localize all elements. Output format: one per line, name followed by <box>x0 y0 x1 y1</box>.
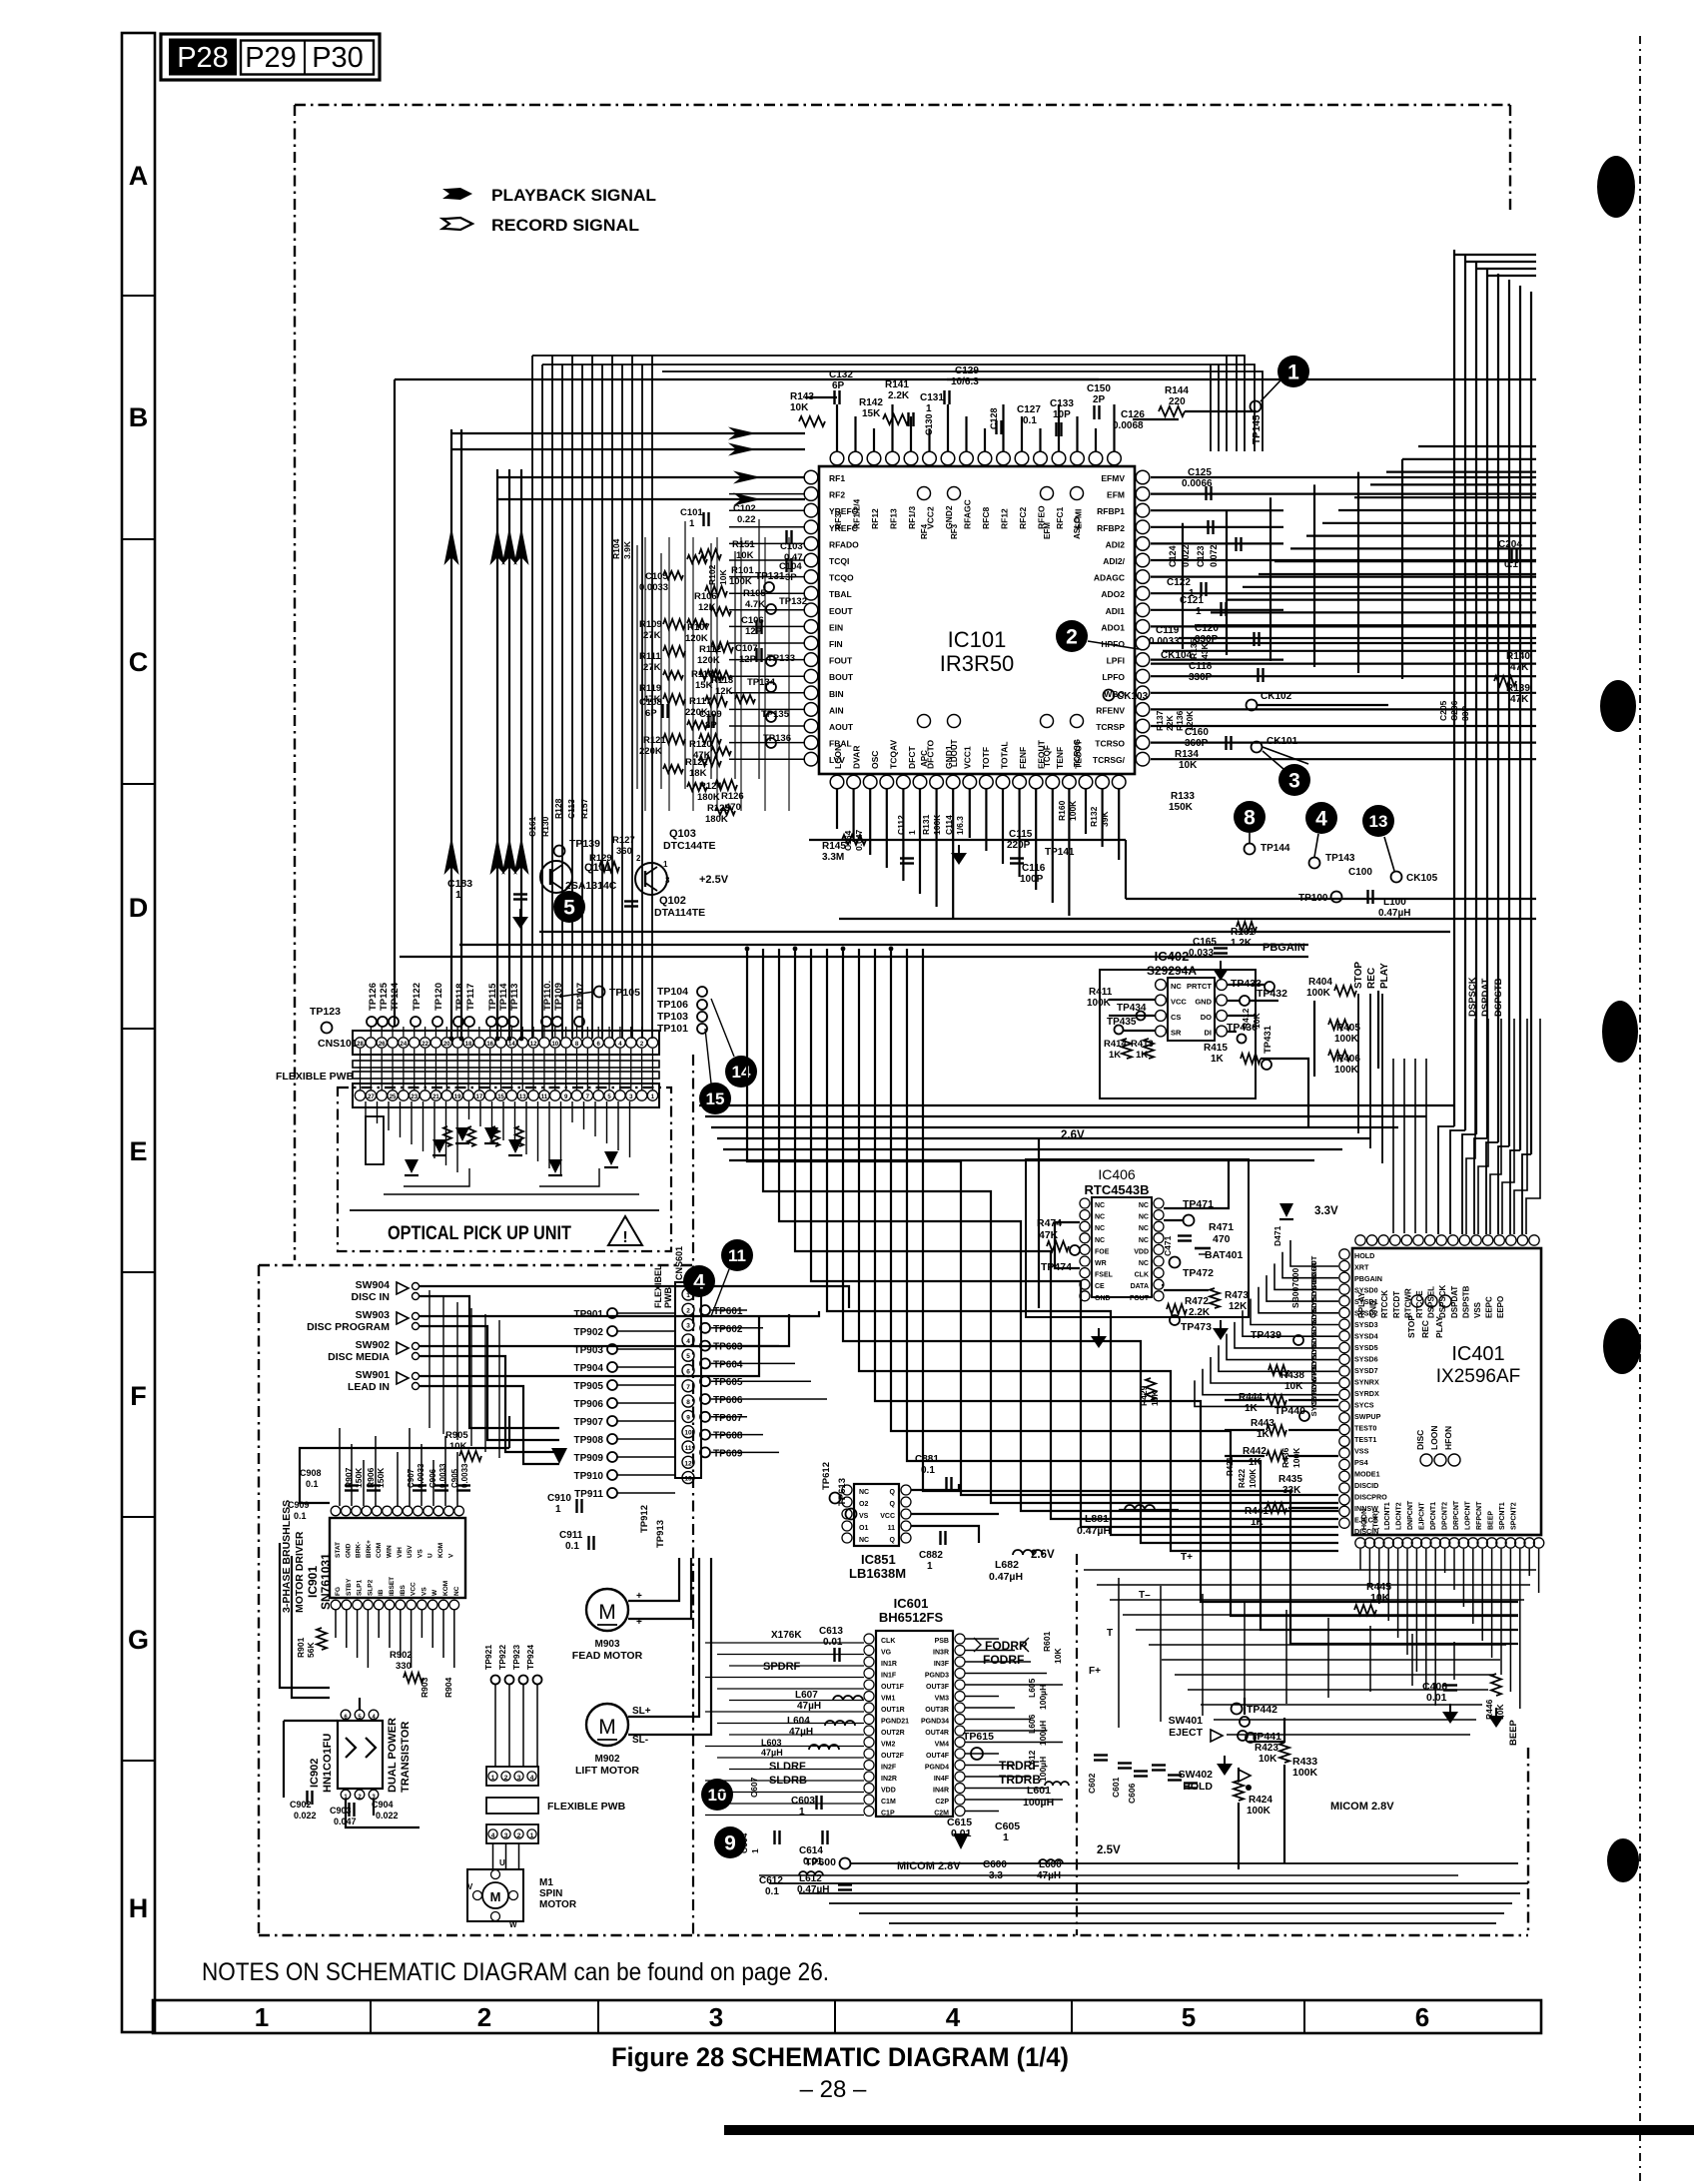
svg-text:NC: NC <box>859 1537 869 1544</box>
registration mark blob 4 <box>1603 1318 1641 1374</box>
IC851 wires right <box>911 1484 959 1490</box>
svg-text:18K: 18K <box>689 768 707 779</box>
svg-text:TP608: TP608 <box>713 1431 743 1442</box>
svg-text:IN2F: IN2F <box>881 1765 897 1772</box>
svg-text:0.1: 0.1 <box>1504 559 1518 570</box>
svg-text:OUT2R: OUT2R <box>881 1730 905 1737</box>
svg-text:VDD: VDD <box>881 1788 896 1795</box>
callout 13 <box>1362 805 1394 837</box>
svg-text:GND: GND <box>345 1543 352 1558</box>
svg-text:27K: 27K <box>643 662 661 673</box>
svg-text:TP911: TP911 <box>574 1489 603 1500</box>
svg-text:EFMV: EFMV <box>1101 473 1125 483</box>
callout 14 <box>725 1056 757 1088</box>
svg-text:R128: R128 <box>553 798 563 819</box>
svg-text:13: 13 <box>519 1094 526 1100</box>
svg-text:DSPSCK: DSPSCK <box>1467 977 1478 1017</box>
svg-text:C124: C124 <box>1168 545 1178 567</box>
svg-text:1: 1 <box>530 1832 534 1839</box>
svg-text:C903: C903 <box>330 1806 352 1816</box>
svg-text:1.2K: 1.2K <box>1231 938 1253 949</box>
svg-text:12P: 12P <box>745 626 763 637</box>
svg-text:DISC PROGRAM: DISC PROGRAM <box>307 1321 390 1333</box>
svg-text:6P: 6P <box>832 380 845 391</box>
svg-text:SYSD7: SYSD7 <box>1354 1366 1378 1375</box>
IC101 inner pads <box>918 487 931 500</box>
svg-text:VS: VS <box>417 1549 423 1558</box>
svg-text:150K: 150K <box>1169 802 1194 813</box>
svg-text:TP431: TP431 <box>1263 1025 1273 1054</box>
svg-text:DISCID: DISCID <box>1354 1481 1378 1490</box>
registration mark blob 3 <box>1602 1001 1638 1063</box>
svg-text:H: H <box>129 1893 149 1923</box>
IC902 inner transistor marks <box>346 1738 356 1758</box>
transistor Q101 2SA1314C <box>540 861 572 893</box>
svg-text:GND: GND <box>1095 1295 1111 1302</box>
svg-text:C161: C161 <box>527 816 537 837</box>
svg-text:EFM: EFM <box>1043 522 1052 539</box>
svg-text:C122: C122 <box>1167 577 1191 588</box>
svg-text:SLDRF: SLDRF <box>769 1761 806 1773</box>
svg-text:TP922: TP922 <box>497 1645 507 1670</box>
svg-text:DISC: DISC <box>1415 1430 1425 1450</box>
svg-text:STAT: STAT <box>335 1542 342 1558</box>
svg-text:TP609: TP609 <box>713 1448 743 1459</box>
svg-text:C150: C150 <box>1087 383 1111 394</box>
svg-text:TP124: TP124 <box>390 982 401 1011</box>
svg-text:PLAY: PLAY <box>1434 1316 1444 1338</box>
svg-text:S29294A: S29294A <box>1147 964 1197 978</box>
svg-text:TP901: TP901 <box>574 1309 604 1320</box>
2.6V bus into region <box>1038 1139 1040 1308</box>
svg-text:BH6512FS: BH6512FS <box>879 1610 944 1625</box>
svg-text:CK105: CK105 <box>1406 873 1438 884</box>
svg-text:TP606: TP606 <box>713 1395 743 1406</box>
svg-text:DUAL POWER: DUAL POWER <box>387 1718 399 1793</box>
svg-text:R131: R131 <box>921 814 931 835</box>
svg-text:TP120: TP120 <box>433 983 444 1011</box>
svg-text:SYSD6: SYSD6 <box>1354 1355 1378 1364</box>
svg-text:DSPSEL: DSPSEL <box>1427 1286 1436 1318</box>
svg-text:100K: 100K <box>932 814 942 835</box>
svg-text:RFC2: RFC2 <box>1018 507 1028 529</box>
svg-text:IC402: IC402 <box>1155 949 1190 964</box>
svg-text:M903: M903 <box>594 1639 619 1650</box>
svg-text:FLEXIBLE PWB: FLEXIBLE PWB <box>547 1801 626 1813</box>
svg-text:VDD: VDD <box>1134 1248 1149 1255</box>
svg-text:TP607: TP607 <box>713 1413 743 1424</box>
wire leads to callouts 14 15 <box>711 999 734 1057</box>
callout 4 lower <box>683 1265 715 1297</box>
svg-text:ADI2/: ADI2/ <box>1103 556 1125 566</box>
svg-text:RFADO: RFADO <box>829 539 859 549</box>
svg-text:DRPCNT: DRPCNT <box>1453 1500 1460 1530</box>
wires TP601 row to staircase <box>711 1309 747 1311</box>
svg-text:DISC MEDIA: DISC MEDIA <box>328 1351 390 1363</box>
right stub wires from IC101 right pins <box>1151 476 1536 478</box>
callout 4 mid <box>1305 802 1337 834</box>
left forest stub wires <box>729 476 805 478</box>
svg-text:22: 22 <box>422 1042 428 1048</box>
resistor R143 <box>799 416 825 426</box>
svg-text:C116: C116 <box>1022 863 1046 874</box>
svg-text:TP612: TP612 <box>821 1462 832 1490</box>
TP105 <box>594 987 605 998</box>
svg-text:R151: R151 <box>732 539 755 550</box>
svg-text:10K: 10K <box>1179 760 1198 771</box>
svg-text:TCQO: TCQO <box>829 573 854 583</box>
svg-text:L612: L612 <box>1027 1750 1037 1770</box>
svg-text:L604: L604 <box>787 1716 810 1727</box>
warning triangle <box>608 1216 642 1245</box>
svg-text:APC: APC <box>920 750 929 767</box>
svg-text:4: 4 <box>686 1338 690 1345</box>
left forest caps <box>702 512 704 526</box>
svg-text:TP605: TP605 <box>713 1377 743 1388</box>
svg-text:R141: R141 <box>885 379 909 390</box>
svg-text:NC: NC <box>1139 1260 1149 1267</box>
IC401 left pin column <box>1339 1249 1349 1259</box>
svg-text:L601: L601 <box>1027 1785 1051 1797</box>
svg-text:C101: C101 <box>680 507 703 518</box>
svg-text:1: 1 <box>926 403 932 414</box>
svg-text:1: 1 <box>799 1807 805 1818</box>
svg-text:13: 13 <box>684 1476 692 1483</box>
svg-text:PLAY: PLAY <box>1379 963 1390 989</box>
svg-text:12: 12 <box>530 1042 537 1048</box>
IC406 RTC4543B region box <box>1026 1159 1249 1317</box>
svg-text:TP910: TP910 <box>574 1471 604 1482</box>
svg-text:10: 10 <box>708 1786 727 1805</box>
svg-text:KOM: KOM <box>442 1581 449 1596</box>
svg-text:C909: C909 <box>288 1500 310 1510</box>
wire callout11 lead <box>711 1269 729 1316</box>
svg-text:M: M <box>598 1601 616 1624</box>
svg-text:1K: 1K <box>1109 1050 1121 1061</box>
resistor R144 <box>1159 406 1185 416</box>
wire left tall vertical TP123 feed <box>394 379 396 1027</box>
IC401 bottom mesh verticals <box>1118 1578 1120 1728</box>
svg-text:C165: C165 <box>1193 937 1217 948</box>
svg-text:TP105: TP105 <box>609 987 640 999</box>
svg-text:HOLD: HOLD <box>1183 1781 1213 1793</box>
svg-text:26: 26 <box>379 1042 386 1048</box>
svg-text:2.5V: 2.5V <box>1097 1844 1121 1856</box>
svg-text:2: 2 <box>636 854 641 863</box>
svg-text:47K: 47K <box>643 694 661 705</box>
svg-text:SYSD2: SYSD2 <box>1354 1309 1378 1318</box>
svg-text:SL+: SL+ <box>632 1706 651 1717</box>
svg-text:OUT3F: OUT3F <box>926 1684 950 1691</box>
svg-text:!: ! <box>622 1229 627 1246</box>
TP601-TP609 test points <box>700 1305 710 1315</box>
svg-text:EJECT: EJECT <box>1169 1727 1203 1739</box>
wire callout4 <box>1314 834 1318 857</box>
svg-text:IN4F: IN4F <box>934 1776 950 1783</box>
capacitor C100 <box>1366 890 1368 904</box>
wire callout13 <box>1384 837 1394 871</box>
svg-text:10K: 10K <box>1284 1381 1303 1392</box>
svg-text:PGND34: PGND34 <box>921 1719 949 1726</box>
svg-text:R106: R106 <box>694 591 717 602</box>
svg-text:W: W <box>431 1589 438 1596</box>
svg-text:3: 3 <box>665 876 670 885</box>
wire bundle top-left verticals to top bus <box>531 356 533 1039</box>
svg-text:100K: 100K <box>1068 800 1078 821</box>
svg-text:12K: 12K <box>715 686 733 697</box>
svg-text:100K: 100K <box>1334 1034 1359 1045</box>
caps near dash divider <box>1152 1764 1166 1766</box>
svg-text:VIH: VIH <box>397 1547 404 1558</box>
svg-text:5: 5 <box>686 1353 690 1360</box>
svg-text:L607: L607 <box>795 1690 818 1701</box>
svg-text:OUT4F: OUT4F <box>926 1753 950 1760</box>
svg-text:TP432: TP432 <box>1257 988 1287 1000</box>
svg-text:DATA: DATA <box>1131 1283 1149 1290</box>
svg-text:F+: F+ <box>1089 1666 1101 1677</box>
svg-text:R109: R109 <box>639 619 662 630</box>
svg-text:VS: VS <box>421 1587 427 1596</box>
svg-text:R423: R423 <box>1255 1743 1278 1754</box>
svg-text:TBAL: TBAL <box>829 589 852 599</box>
svg-text:SYSD4: SYSD4 <box>1354 1332 1378 1341</box>
svg-text:C606: C606 <box>1127 1783 1137 1804</box>
IC902 HN1CO1FU dual power transistor body <box>338 1721 383 1789</box>
switch output wires <box>420 1286 849 1308</box>
svg-text:R411: R411 <box>1089 987 1113 998</box>
svg-text:R142: R142 <box>859 397 883 408</box>
wire top bus line lower <box>542 364 1255 451</box>
svg-text:SYSD0: SYSD0 <box>1354 1286 1378 1295</box>
svg-text:NC: NC <box>859 1489 869 1496</box>
svg-text:11: 11 <box>685 1445 692 1452</box>
svg-text:TP923: TP923 <box>511 1645 521 1670</box>
svg-text:R136: R136 <box>1175 710 1185 731</box>
wire callout3 <box>1263 751 1283 769</box>
flexible PWB bars <box>353 1061 659 1068</box>
IC101 bottom stub wires <box>836 789 838 829</box>
svg-text:TP107: TP107 <box>575 983 586 1011</box>
svg-text:CNS601: CNS601 <box>674 1246 684 1280</box>
svg-text:0.1: 0.1 <box>1023 415 1037 426</box>
svg-text:REC: REC <box>1366 968 1377 989</box>
svg-text:TOTAL: TOTAL <box>1000 741 1010 769</box>
schematic border left <box>294 105 296 1260</box>
svg-text:NC: NC <box>1095 1202 1105 1209</box>
schematic border right-bottom stub <box>1527 1748 1529 1935</box>
svg-text:RF12: RF12 <box>870 508 880 529</box>
svg-text:X176K: X176K <box>771 1630 802 1641</box>
svg-text:3: 3 <box>517 1775 521 1782</box>
flexible PWB bar <box>486 1798 538 1814</box>
svg-text:T–: T– <box>1139 1590 1151 1601</box>
svg-text:180K: 180K <box>705 814 728 825</box>
svg-text:1: 1 <box>255 2002 269 2032</box>
right staircase corner verticals <box>1401 459 1403 679</box>
svg-text:WR: WR <box>1095 1260 1107 1267</box>
IC901 bottom pins <box>331 1600 341 1610</box>
svg-text:ADI2: ADI2 <box>1106 539 1126 549</box>
svg-text:R421: R421 <box>1226 1456 1235 1476</box>
svg-text:R157: R157 <box>579 798 589 819</box>
inductor L603 <box>809 1745 839 1750</box>
wire CK102 line <box>1258 704 1388 706</box>
svg-text:HN1CO1FU: HN1CO1FU <box>322 1734 334 1793</box>
svg-text:TP902: TP902 <box>574 1327 604 1338</box>
svg-text:BAT401: BAT401 <box>1205 1249 1243 1261</box>
left forest vertical links <box>636 545 638 789</box>
svg-text:R120: R120 <box>689 739 712 750</box>
svg-text:NC: NC <box>1139 1237 1149 1244</box>
svg-text:C164: C164 <box>843 830 853 851</box>
test points bottom <box>1245 844 1256 855</box>
section divider dash vertical right <box>1076 1554 1078 1935</box>
svg-text:22K: 22K <box>1165 715 1175 731</box>
svg-text:C612: C612 <box>759 1875 783 1886</box>
svg-text:TP908: TP908 <box>574 1435 604 1446</box>
svg-text:TP117: TP117 <box>465 984 476 1011</box>
svg-text:DFCT: DFCT <box>907 746 917 769</box>
svg-text:WIN: WIN <box>387 1545 394 1558</box>
svg-text:E: E <box>129 1136 147 1166</box>
svg-text:LOPCNT: LOPCNT <box>1465 1501 1472 1531</box>
svg-text:FOUT: FOUT <box>829 656 853 666</box>
IC601 wires left <box>705 1642 864 1644</box>
svg-text:FEAD MOTOR: FEAD MOTOR <box>572 1650 643 1662</box>
svg-text:IR3R50: IR3R50 <box>940 651 1015 676</box>
svg-text:1K: 1K <box>1251 1517 1265 1528</box>
svg-text:BIN: BIN <box>829 689 844 699</box>
svg-text:0.22: 0.22 <box>737 514 756 525</box>
svg-text:PRTCT: PRTCT <box>1187 982 1212 991</box>
svg-text:IN2R: IN2R <box>881 1776 897 1783</box>
schematic border bottom <box>259 1934 1528 1936</box>
svg-text:10K: 10K <box>1259 1754 1277 1765</box>
svg-text:PLAYBACK SIGNAL: PLAYBACK SIGNAL <box>491 186 656 205</box>
svg-text:C100: C100 <box>1348 867 1372 878</box>
svg-text:RTC4543B: RTC4543B <box>1084 1182 1149 1197</box>
svg-text:TP113: TP113 <box>509 984 520 1011</box>
svg-text:12K: 12K <box>1229 1301 1248 1312</box>
svg-text:220K: 220K <box>639 746 662 757</box>
svg-text:0.01: 0.01 <box>1426 1692 1447 1704</box>
IC401 stop rec play pad trio <box>1411 1295 1423 1307</box>
svg-text:R444: R444 <box>1239 1392 1263 1403</box>
wire callout2 <box>1088 641 1139 649</box>
svg-text:OSC: OSC <box>870 751 880 769</box>
staircase junction dots <box>745 947 750 952</box>
svg-text:TP903: TP903 <box>574 1345 604 1356</box>
svg-text:120K: 120K <box>1185 710 1195 731</box>
svg-text:C881: C881 <box>915 1454 939 1465</box>
inductor L604 <box>825 1721 855 1726</box>
svg-text:2: 2 <box>1066 626 1078 649</box>
test point CK103 <box>1104 690 1115 701</box>
svg-text:TP139: TP139 <box>569 838 600 850</box>
section divider dash vertical center <box>692 1055 694 1935</box>
svg-text:MOTOR: MOTOR <box>539 1899 577 1910</box>
svg-text:LIFT MOTOR: LIFT MOTOR <box>575 1765 639 1777</box>
svg-text:OUT4R: OUT4R <box>925 1730 949 1737</box>
svg-text:4: 4 <box>1315 808 1327 831</box>
svg-text:BOUT: BOUT <box>829 672 854 682</box>
svg-text:100K: 100K <box>1334 1065 1359 1076</box>
svg-text:VCC: VCC <box>880 1513 895 1520</box>
svg-text:0.1: 0.1 <box>306 1479 319 1489</box>
svg-text:4: 4 <box>491 1832 495 1839</box>
svg-text:1: 1 <box>1003 1831 1009 1843</box>
svg-text:15K: 15K <box>862 408 881 419</box>
svg-text:– 28 –: – 28 – <box>800 2076 867 2103</box>
svg-text:A: A <box>129 161 149 191</box>
right margin dash-dot page divider <box>1639 36 1641 2182</box>
svg-text:2: 2 <box>504 1775 508 1782</box>
svg-text:O2: O2 <box>859 1501 868 1508</box>
svg-text:(TOR): (TOR) <box>1373 1511 1380 1530</box>
svg-text:TP103: TP103 <box>657 1011 688 1023</box>
svg-text:27K: 27K <box>643 630 661 641</box>
svg-text:TENF: TENF <box>1055 747 1065 769</box>
svg-text:LDCNT1: LDCNT1 <box>1384 1502 1391 1530</box>
svg-text:25: 25 <box>390 1094 397 1100</box>
page tabs P28 P29 P30 <box>161 34 380 80</box>
IC401 left feed staircase <box>1290 1240 1338 1266</box>
svg-text:100K: 100K <box>729 576 752 587</box>
svg-text:LEAD IN: LEAD IN <box>348 1381 390 1393</box>
svg-text:47K: 47K <box>1510 694 1529 705</box>
svg-text:100P: 100P <box>1020 874 1044 885</box>
svg-text:1: 1 <box>1196 606 1202 617</box>
svg-text:24: 24 <box>401 1042 408 1048</box>
wire callout8 <box>1249 833 1251 844</box>
IC401 bottom pin row <box>1355 1538 1365 1548</box>
IC401 bottom serpentines <box>1084 1569 1536 1571</box>
bottom zone number strip <box>153 2000 1541 2033</box>
svg-text:C205: C205 <box>1438 700 1448 721</box>
registration mark blob 2 <box>1600 680 1636 732</box>
middle bus horizontals <box>699 1104 1454 1106</box>
svg-text:RFC8: RFC8 <box>981 507 991 529</box>
svg-text:SLP2: SLP2 <box>367 1579 374 1596</box>
inductor L882 coil <box>1013 1550 1043 1555</box>
svg-text:180K: 180K <box>697 792 720 803</box>
svg-text:6: 6 <box>1415 2002 1429 2032</box>
svg-text:XRT: XRT <box>1354 1263 1369 1272</box>
svg-text:STBY: STBY <box>346 1578 353 1596</box>
switch bundle verticals to IC901 <box>428 1290 430 1428</box>
svg-text:SLP1: SLP1 <box>357 1579 364 1596</box>
svg-text:GND: GND <box>1195 998 1212 1007</box>
svg-text:9: 9 <box>724 1832 736 1855</box>
svg-text:R404: R404 <box>1308 977 1332 988</box>
lift motor M902 <box>586 1704 628 1746</box>
svg-text:RFC1: RFC1 <box>1055 507 1065 529</box>
svg-text:D: D <box>129 893 149 923</box>
svg-text:C113: C113 <box>566 799 576 819</box>
svg-text:IB: IB <box>378 1589 385 1596</box>
svg-text:R443: R443 <box>1251 1418 1274 1429</box>
svg-text:C204: C204 <box>1498 539 1522 550</box>
svg-text:LB1638M: LB1638M <box>849 1566 906 1581</box>
schematic border right stub <box>1509 105 1511 215</box>
svg-text:R415: R415 <box>1204 1043 1228 1054</box>
svg-text:Q103: Q103 <box>669 828 696 840</box>
svg-text:RFENV: RFENV <box>1096 705 1125 715</box>
svg-text:TP905: TP905 <box>574 1381 604 1392</box>
IC401 disc loon hfon pad trio <box>1420 1454 1432 1466</box>
svg-text:Figure 28 SCHEMATIC DIAGRAM (: Figure 28 SCHEMATIC DIAGRAM (1/4) <box>611 2042 1069 2072</box>
svg-text:27: 27 <box>368 1094 375 1100</box>
